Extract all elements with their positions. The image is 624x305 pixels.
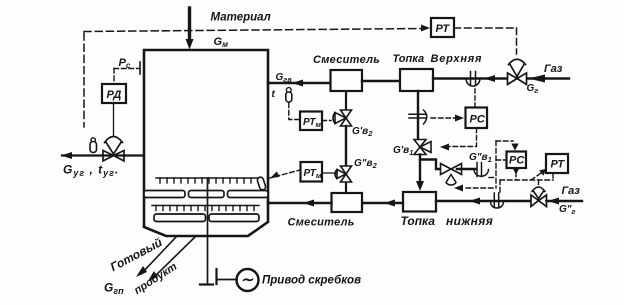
svg-text:нижняя: нижняя	[446, 214, 493, 228]
svg-text:РТ: РТ	[551, 159, 566, 171]
svg-text:Смеситель: Смеситель	[313, 54, 380, 66]
svg-text:Газ: Газ	[562, 185, 581, 197]
svg-text:РТ: РТ	[436, 23, 451, 35]
svg-text:Верхняя: Верхняя	[431, 53, 483, 65]
svg-text:Материал: Материал	[211, 12, 271, 24]
svg-text:РС: РС	[470, 114, 486, 126]
svg-text:Смеситель: Смеситель	[288, 217, 355, 229]
svg-text:Топка: Топка	[393, 53, 425, 65]
svg-text:Газ: Газ	[544, 63, 563, 75]
svg-text:Привод скребков: Привод скребков	[262, 275, 361, 287]
svg-text:РД: РД	[107, 89, 122, 101]
svg-text:∼: ∼	[241, 272, 254, 289]
svg-text:РС: РС	[509, 155, 525, 167]
svg-text:Топка: Топка	[401, 214, 436, 228]
